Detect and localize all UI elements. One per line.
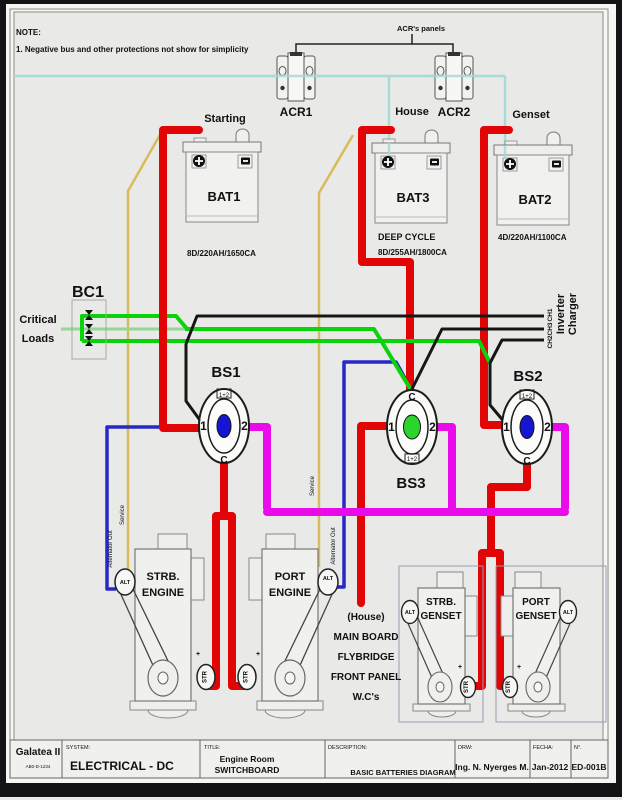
svg-text:ALT: ALT xyxy=(120,580,131,586)
svg-text:STRB.: STRB. xyxy=(426,597,456,608)
svg-text:+: + xyxy=(196,651,200,658)
svg-text:SYSTEM:: SYSTEM: xyxy=(66,745,91,751)
svg-text:BAT1: BAT1 xyxy=(208,189,241,204)
svg-text:Starting: Starting xyxy=(204,113,246,125)
svg-text:STR: STR xyxy=(203,670,209,683)
svg-text:W.C's: W.C's xyxy=(353,692,380,703)
svg-text:1+2: 1+2 xyxy=(219,393,230,399)
svg-text:2: 2 xyxy=(241,419,248,433)
svg-text:1. Negative bus and other prot: 1. Negative bus and other protections no… xyxy=(16,45,249,54)
svg-text:ALT: ALT xyxy=(323,576,334,582)
svg-text:+: + xyxy=(256,651,260,658)
svg-text:1+2: 1+2 xyxy=(522,394,533,400)
svg-text:STR: STR xyxy=(244,670,250,683)
svg-text:Jan-2012: Jan-2012 xyxy=(532,762,569,772)
svg-text:Loads: Loads xyxy=(22,333,54,345)
svg-text:ELECTRICAL - DC: ELECTRICAL - DC xyxy=(70,759,174,773)
svg-text:GENSET: GENSET xyxy=(420,611,461,622)
svg-text:BS3: BS3 xyxy=(396,475,425,492)
svg-text:2: 2 xyxy=(429,420,436,434)
svg-text:GENSET: GENSET xyxy=(515,611,556,622)
svg-text:2: 2 xyxy=(544,420,551,434)
svg-text:ACR's panels: ACR's panels xyxy=(397,24,445,33)
svg-text:BC1: BC1 xyxy=(72,284,104,301)
svg-text:ED-001B: ED-001B xyxy=(572,762,607,772)
svg-text:ACR2: ACR2 xyxy=(438,105,471,119)
svg-text:Service: Service xyxy=(120,504,126,525)
svg-text:CH2: CH2 xyxy=(547,335,554,348)
svg-text:Galatea II: Galatea II xyxy=(16,747,61,758)
svg-text:CH3: CH3 xyxy=(547,322,554,335)
svg-text:House: House xyxy=(395,106,429,118)
svg-text:NOTE:: NOTE: xyxy=(16,28,41,37)
svg-text:Engine Room: Engine Room xyxy=(220,754,275,764)
svg-text:Service: Service xyxy=(310,475,316,496)
svg-text:Critical: Critical xyxy=(19,314,56,326)
svg-text:ALT: ALT xyxy=(405,610,416,616)
svg-text:Charger: Charger xyxy=(567,292,579,335)
svg-text:C: C xyxy=(523,456,530,467)
svg-text:MAIN BOARD: MAIN BOARD xyxy=(334,632,399,643)
svg-text:ENGINE: ENGINE xyxy=(142,587,184,599)
svg-text:1: 1 xyxy=(388,420,395,434)
svg-text:FECHA:: FECHA: xyxy=(533,745,554,751)
svg-text:PORT: PORT xyxy=(275,571,306,583)
svg-text:+: + xyxy=(458,664,462,671)
svg-text:ENGINE: ENGINE xyxy=(269,587,311,599)
svg-text:Inverter: Inverter xyxy=(555,293,567,334)
svg-text:Ing. N. Nyerges M.: Ing. N. Nyerges M. xyxy=(455,762,529,772)
svg-text:8D/255AH/1800CA: 8D/255AH/1800CA xyxy=(378,248,447,257)
svg-text:8D/220AH/1650CA: 8D/220AH/1650CA xyxy=(187,249,256,258)
svg-text:(House): (House) xyxy=(347,612,384,623)
svg-text:Alternator Out: Alternator Out xyxy=(331,527,337,565)
svg-text:C: C xyxy=(220,455,227,466)
svg-text:1+2: 1+2 xyxy=(407,457,418,463)
svg-text:C: C xyxy=(408,392,415,403)
svg-text:STR: STR xyxy=(464,680,470,693)
svg-text:Alternator Out: Alternator Out xyxy=(108,530,114,568)
svg-text:STR: STR xyxy=(506,680,512,693)
svg-text:BS2: BS2 xyxy=(513,368,542,385)
svg-text:N°.: N°. xyxy=(574,745,582,751)
svg-text:BASIC BATTERIES DIAGRAM: BASIC BATTERIES DIAGRAM xyxy=(350,768,455,777)
svg-text:DESCRIPTION:: DESCRIPTION: xyxy=(328,745,368,751)
svg-text:+: + xyxy=(517,664,521,671)
svg-text:DRW:: DRW: xyxy=(458,745,473,751)
svg-text:DEEP CYCLE: DEEP CYCLE xyxy=(378,232,435,242)
svg-text:4D/220AH/1100CA: 4D/220AH/1100CA xyxy=(498,233,567,242)
svg-text:ACR1: ACR1 xyxy=(280,105,313,119)
svg-text:1: 1 xyxy=(200,419,207,433)
svg-text:FLYBRIDGE: FLYBRIDGE xyxy=(338,652,395,663)
svg-text:PORT: PORT xyxy=(522,597,550,608)
svg-text:SWITCHBOARD: SWITCHBOARD xyxy=(215,765,280,775)
svg-text:STRB.: STRB. xyxy=(147,571,180,583)
svg-text:TITLE:: TITLE: xyxy=(204,745,221,751)
svg-text:BS1: BS1 xyxy=(211,364,240,381)
svg-text:BAT3: BAT3 xyxy=(397,190,430,205)
svg-text:BAT2: BAT2 xyxy=(519,192,552,207)
svg-text:Genset: Genset xyxy=(512,109,550,121)
svg-text:ALT: ALT xyxy=(563,610,574,616)
svg-text:CH1: CH1 xyxy=(547,308,554,321)
svg-text:AB0-D-1234: AB0-D-1234 xyxy=(26,764,51,769)
svg-text:FRONT PANEL: FRONT PANEL xyxy=(331,672,401,683)
svg-text:1: 1 xyxy=(503,420,510,434)
